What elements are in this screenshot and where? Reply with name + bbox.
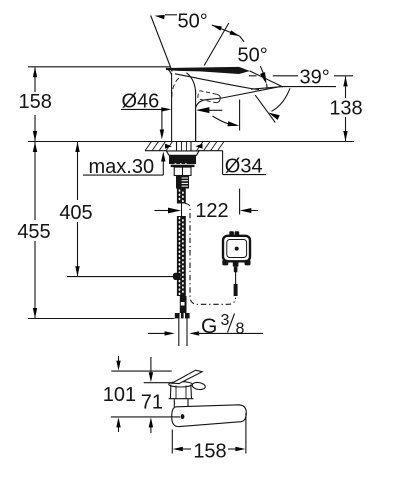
svg-text:101: 101 [103,384,136,406]
svg-text:50°: 50° [178,11,208,33]
svg-text:50°: 50° [238,45,268,67]
svg-text:G: G [201,315,217,338]
svg-text:122: 122 [195,200,228,222]
svg-text:405: 405 [59,202,92,224]
svg-text:8: 8 [236,321,245,338]
svg-text:3: 3 [221,312,230,329]
svg-text:138: 138 [329,97,362,119]
svg-text:39°: 39° [300,67,330,89]
svg-text:158: 158 [19,91,52,113]
svg-text:Ø34: Ø34 [225,155,263,177]
svg-text:455: 455 [17,221,50,243]
svg-text:158: 158 [193,440,226,462]
svg-text:71: 71 [141,391,163,413]
